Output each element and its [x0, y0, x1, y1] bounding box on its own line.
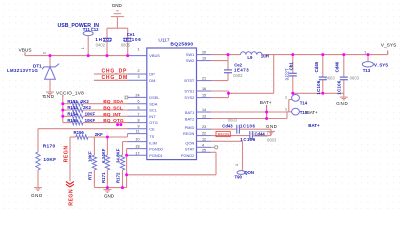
svg-text:0402: 0402	[96, 43, 106, 48]
svg-text:DP: DP	[149, 72, 155, 77]
svg-text:SDA: SDA	[149, 101, 157, 106]
svg-text:5: 5	[137, 106, 139, 110]
svg-text:13: 13	[202, 115, 206, 119]
svg-text:0603: 0603	[228, 118, 238, 123]
svg-text:GND: GND	[31, 193, 43, 198]
svg-text:GND: GND	[112, 3, 123, 8]
svg-text:2K2: 2K2	[83, 105, 91, 110]
svg-text:BAT1: BAT1	[185, 110, 194, 115]
svg-text:GND: GND	[336, 101, 348, 106]
svg-text:0603: 0603	[325, 76, 335, 81]
svg-text:V_SYS: V_SYS	[374, 62, 388, 67]
svg-text:0805: 0805	[121, 43, 131, 48]
svg-text:C12: C12	[91, 27, 99, 32]
svg-text:T13: T13	[363, 68, 371, 73]
svg-text:GND: GND	[43, 94, 55, 99]
svg-text:T11: T11	[83, 27, 91, 32]
svg-text:DM: DM	[149, 78, 155, 83]
svg-text:OTG: OTG	[149, 120, 157, 125]
svg-text:VBUS: VBUS	[19, 47, 32, 53]
svg-text:PGND2: PGND2	[181, 153, 194, 158]
svg-text:SCL: SCL	[149, 108, 157, 113]
svg-text:T90: T90	[235, 174, 243, 179]
svg-text:1: 1	[81, 47, 85, 49]
svg-text:34.8KF: 34.8KF	[115, 148, 120, 163]
svg-text:15: 15	[202, 94, 206, 98]
svg-text:CHG_DM: CHG_DM	[102, 75, 128, 81]
svg-text:1: 1	[364, 51, 366, 55]
svg-text:1E/106: 1E/106	[123, 37, 142, 42]
svg-text:BQ_SCL: BQ_SCL	[103, 106, 123, 112]
svg-text:2: 2	[43, 52, 47, 54]
svg-text:R153: R153	[67, 105, 78, 110]
svg-text:1E473: 1E473	[234, 68, 249, 73]
svg-text:BAT+: BAT+	[308, 123, 320, 128]
svg-text:QON: QON	[244, 170, 254, 175]
svg-text:12: 12	[202, 137, 206, 141]
svg-text:BQ_SDA: BQ_SDA	[103, 99, 124, 105]
svg-text:U117: U117	[158, 37, 169, 43]
svg-text:REGN: REGN	[218, 132, 230, 137]
svg-text:SYS2: SYS2	[184, 95, 194, 100]
svg-text:RT1: RT1	[88, 171, 93, 180]
svg-text:CE: CE	[149, 126, 155, 131]
svg-text:10KF: 10KF	[85, 118, 96, 123]
svg-text:BAT2: BAT2	[185, 117, 194, 122]
svg-text:16: 16	[202, 87, 206, 91]
svg-text:R151: R151	[67, 99, 78, 104]
svg-text:11: 11	[136, 130, 140, 134]
svg-text:24: 24	[135, 93, 139, 97]
svg-text:ILIM: ILIM	[149, 141, 157, 146]
svg-text:REGN: REGN	[69, 189, 75, 206]
svg-text:1C106: 1C106	[316, 80, 321, 94]
svg-text:4: 4	[202, 143, 204, 147]
svg-text:1: 1	[285, 108, 287, 112]
svg-text:REGN: REGN	[183, 131, 194, 136]
svg-text:23: 23	[202, 125, 206, 129]
svg-text:INT: INT	[149, 114, 156, 119]
svg-text:20: 20	[202, 51, 206, 55]
svg-text:PGND1: PGND1	[149, 153, 162, 158]
svg-text:REGN: REGN	[64, 145, 70, 162]
svg-text:R170: R170	[43, 144, 56, 150]
svg-text:3: 3	[137, 75, 139, 79]
svg-text:TS: TS	[149, 134, 154, 139]
svg-text:0402: 0402	[233, 73, 243, 78]
svg-text:GND: GND	[104, 194, 115, 199]
svg-text:2: 2	[137, 69, 139, 73]
svg-text:PMID: PMID	[185, 125, 195, 130]
svg-text:1uH: 1uH	[261, 53, 269, 58]
svg-text:6.34KF: 6.34KF	[101, 148, 106, 163]
svg-text:R156: R156	[74, 130, 85, 135]
svg-text:7: 7	[137, 112, 139, 116]
svg-text:1C106: 1C106	[240, 123, 255, 128]
svg-text:VCCIO_1V8: VCCIO_1V8	[56, 90, 84, 95]
svg-text:17: 17	[135, 151, 139, 155]
svg-text:PGND0: PGND0	[149, 147, 163, 152]
svg-text:1H102: 1H102	[95, 37, 113, 42]
svg-text:BAT+: BAT+	[260, 100, 272, 106]
svg-text:18: 18	[135, 145, 139, 149]
svg-text:R172: R172	[115, 172, 120, 183]
svg-text:Cd44: Cd44	[255, 132, 266, 137]
svg-text:0J22T: 0J22T	[285, 68, 290, 80]
svg-text:1C106: 1C106	[337, 80, 342, 94]
svg-text:25: 25	[202, 148, 206, 152]
svg-text:2KF: 2KF	[95, 132, 103, 137]
svg-text:1: 1	[235, 164, 239, 166]
svg-text:10KF: 10KF	[85, 112, 96, 117]
svg-text:10KF: 10KF	[88, 151, 93, 162]
svg-text:L9: L9	[247, 55, 253, 60]
svg-text:BAT+: BAT+	[307, 110, 318, 115]
svg-text:14: 14	[202, 108, 206, 112]
svg-text:19: 19	[202, 57, 206, 61]
svg-text:T14: T14	[300, 100, 308, 105]
svg-text:0603: 0603	[267, 138, 277, 143]
svg-text:R155: R155	[67, 118, 78, 123]
svg-text:BTST: BTST	[184, 78, 195, 83]
svg-text:DSEL: DSEL	[149, 95, 160, 100]
svg-text:1: 1	[285, 96, 287, 100]
svg-text:Cd43: Cd43	[222, 123, 233, 128]
svg-text:BQ25890: BQ25890	[170, 41, 193, 47]
svg-text:9: 9	[137, 125, 139, 129]
svg-text:VBUS: VBUS	[149, 53, 160, 58]
svg-text:Cd46: Cd46	[335, 61, 340, 72]
svg-text:BQ_INT: BQ_INT	[103, 112, 121, 118]
svg-text:QON: QON	[185, 141, 194, 146]
svg-text:Cd45: Cd45	[314, 61, 319, 72]
svg-text:CHG_DP: CHG_DP	[102, 69, 128, 75]
svg-text:R154: R154	[67, 112, 78, 117]
svg-text:1C106: 1C106	[240, 137, 255, 142]
svg-text:2K2: 2K2	[81, 99, 89, 104]
svg-text:10: 10	[135, 138, 139, 142]
svg-text:22: 22	[202, 132, 206, 136]
svg-text:BQ_OTG: BQ_OTG	[103, 118, 124, 124]
svg-text:21: 21	[202, 77, 206, 81]
svg-text:R171: R171	[101, 172, 106, 183]
svg-text:V_SYS: V_SYS	[381, 43, 396, 49]
svg-text:1: 1	[137, 47, 139, 51]
svg-text:STAT: STAT	[185, 147, 195, 152]
svg-text:LM3Z13VT1G: LM3Z13VT1G	[7, 68, 38, 73]
svg-text:6: 6	[137, 100, 139, 104]
svg-text:8: 8	[137, 119, 139, 123]
svg-text:10KF: 10KF	[43, 157, 56, 163]
svg-text:SW1: SW1	[186, 52, 194, 57]
svg-text:GND: GND	[266, 124, 277, 129]
svg-text:0603: 0603	[350, 76, 360, 81]
svg-text:SYS1: SYS1	[184, 89, 194, 94]
svg-text:SW2: SW2	[186, 58, 194, 63]
